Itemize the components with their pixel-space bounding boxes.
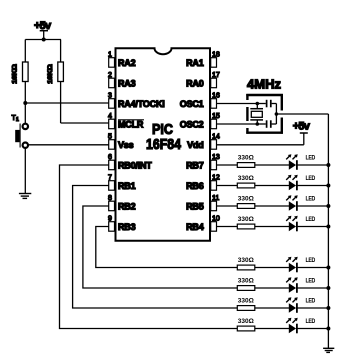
- wire R7 to LED: [255, 267, 289, 269]
- svg-text:330Ω: 330Ω: [238, 195, 254, 202]
- power +5V right: [293, 121, 311, 145]
- svg-text:8: 8: [108, 195, 112, 202]
- svg-text:6: 6: [108, 154, 112, 161]
- wire switch to Vss pin5: [28, 144, 109, 146]
- svg-text:330Ω: 330Ω: [238, 277, 254, 284]
- resistor R6 330ohm: [237, 216, 255, 229]
- svg-text:18: 18: [212, 52, 220, 59]
- wire +5V to Vdd pin14: [217, 144, 304, 146]
- pin stubs left: [109, 58, 115, 232]
- wire RB2 pin8 run: [83, 206, 237, 288]
- wire D6 to bus: [297, 287, 328, 289]
- node A junction dot: [23, 101, 27, 105]
- wire RB5 pin11 row: [217, 205, 238, 207]
- wire D5 to bus: [297, 267, 328, 269]
- wire node A to RA4 pin3: [25, 102, 108, 104]
- node D6 bus junction: [326, 286, 330, 290]
- svg-text:RB7: RB7: [186, 161, 204, 171]
- wire RB1 pin7 run: [73, 186, 238, 309]
- pin stubs right: [211, 58, 217, 232]
- svg-text:RA1: RA1: [186, 58, 204, 68]
- wire node A to switch: [24, 103, 26, 123]
- pin labels left: [118, 58, 165, 232]
- ground right: [323, 348, 334, 352]
- svg-text:RB0/INT: RB0/INT: [118, 161, 152, 171]
- wire D7 to bus: [297, 307, 328, 309]
- svg-text:LED: LED: [306, 258, 316, 264]
- svg-text:10: 10: [212, 216, 220, 223]
- svg-text:RB4: RB4: [186, 222, 204, 232]
- svg-text:LED: LED: [306, 176, 316, 182]
- wire R4 to LED: [255, 185, 289, 187]
- wire RB4 pin10 row: [217, 226, 238, 228]
- resistor R7 330ohm: [237, 257, 255, 270]
- svg-text:11: 11: [212, 195, 219, 202]
- svg-text:LED: LED: [306, 217, 316, 223]
- svg-text:OSC1: OSC1: [180, 99, 204, 109]
- wire RB3 pin9 run: [96, 227, 238, 268]
- LED D6: [286, 277, 316, 293]
- wire RB6 pin12 row: [217, 185, 238, 187]
- svg-text:RB2: RB2: [118, 202, 136, 212]
- LED D5: [286, 257, 316, 273]
- resistor R4 330ohm: [237, 175, 255, 188]
- LED D1: [286, 154, 316, 170]
- svg-text:Vss: Vss: [118, 140, 134, 150]
- svg-text:OSC2: OSC2: [180, 120, 204, 130]
- wire cap common vertical: [275, 104, 277, 125]
- wire R2 to MCLR pin4: [61, 122, 109, 124]
- svg-text:1: 1: [16, 117, 19, 123]
- LED D8: [286, 318, 316, 334]
- svg-text:330Ω: 330Ω: [238, 175, 254, 182]
- node D7 bus junction: [326, 306, 330, 310]
- svg-text:+5v: +5v: [293, 121, 311, 133]
- svg-text:330Ω: 330Ω: [238, 216, 254, 223]
- node D5 bus junction: [326, 266, 330, 270]
- svg-text:10KΩ: 10KΩ: [12, 64, 19, 84]
- svg-text:LED: LED: [306, 279, 316, 285]
- node OSC1 dot: [255, 102, 259, 106]
- wire R8 to LED: [255, 287, 289, 289]
- wire OSC1 to crystal: [217, 103, 258, 105]
- svg-text:MCLR: MCLR: [118, 120, 144, 130]
- svg-text:RB1: RB1: [118, 181, 136, 191]
- pin numbers right: [212, 52, 220, 223]
- wire D4 to bus: [297, 226, 328, 228]
- svg-text:RA0: RA0: [186, 79, 204, 89]
- svg-text:LED: LED: [306, 299, 316, 305]
- svg-text:1: 1: [108, 52, 112, 59]
- wire cap common to ground bus: [276, 113, 328, 115]
- resistor R3 330ohm: [237, 154, 255, 167]
- pin numbers left: [108, 52, 112, 223]
- LED D3: [286, 195, 316, 211]
- svg-text:13: 13: [212, 154, 220, 161]
- svg-text:14: 14: [212, 134, 220, 141]
- resistor R1 10K: [12, 62, 29, 84]
- wire switch to ground: [24, 148, 26, 194]
- svg-text:RA4/TOCKI: RA4/TOCKI: [118, 99, 165, 109]
- wire D8 to bus: [297, 328, 328, 330]
- LED D7: [286, 297, 316, 313]
- ground left: [19, 194, 31, 199]
- wire D1 to bus: [297, 164, 328, 166]
- node D2 bus junction: [326, 184, 330, 188]
- svg-text:10KΩ: 10KΩ: [47, 64, 54, 84]
- svg-text:330Ω: 330Ω: [238, 297, 254, 304]
- node D8 bus junction: [326, 327, 330, 331]
- node D4 bus junction: [326, 225, 330, 229]
- wire RB7 pin13 row: [217, 164, 238, 166]
- wire right rail drop: [60, 40, 62, 63]
- svg-text:RB3: RB3: [118, 222, 136, 232]
- wire R5 to LED: [255, 205, 289, 207]
- svg-text:2: 2: [108, 72, 112, 79]
- svg-text:12: 12: [212, 175, 220, 182]
- wire +5V rail: [25, 39, 61, 41]
- wire R1 to node A: [24, 82, 26, 104]
- switch T1: [12, 115, 28, 148]
- svg-text:15: 15: [212, 113, 220, 120]
- svg-text:LED: LED: [306, 319, 316, 325]
- resistor R10 330ohm: [237, 318, 255, 331]
- node cap common dot: [275, 112, 279, 116]
- crystal X1: [250, 104, 263, 125]
- LED D4: [286, 216, 316, 232]
- capacitor C1: [257, 100, 276, 108]
- LED D2: [286, 175, 316, 191]
- svg-text:3: 3: [108, 93, 112, 100]
- resistor R2 10K: [47, 62, 63, 84]
- node OSC2 dot: [255, 122, 259, 126]
- wire D2 to bus: [297, 185, 328, 187]
- power +5V left: [34, 20, 52, 40]
- node D1 bus junction: [326, 163, 330, 167]
- wire left rail drop: [24, 40, 26, 63]
- resistor R5 330ohm: [237, 195, 255, 208]
- svg-text:330Ω: 330Ω: [238, 318, 254, 325]
- svg-text:9: 9: [108, 216, 112, 223]
- svg-text:16: 16: [212, 93, 220, 100]
- svg-text:16F84: 16F84: [146, 136, 182, 153]
- wire OSC2 to crystal: [217, 123, 258, 125]
- wire R3 to LED: [255, 164, 289, 166]
- svg-text:7: 7: [108, 175, 112, 182]
- node D3 bus junction: [326, 204, 330, 208]
- svg-text:RA3: RA3: [118, 79, 136, 89]
- resistor R9 330ohm: [237, 297, 255, 310]
- wire RB0 pin6 run: [60, 165, 238, 329]
- svg-text:330Ω: 330Ω: [238, 257, 254, 264]
- svg-text:5: 5: [108, 134, 112, 141]
- svg-text:4: 4: [108, 113, 112, 120]
- svg-text:LED: LED: [306, 197, 316, 203]
- wire R6 to LED: [255, 226, 289, 228]
- svg-text:RA2: RA2: [118, 58, 136, 68]
- IC U1 PIC16F84 body: [115, 48, 212, 241]
- svg-text:4MHz: 4MHz: [247, 76, 281, 91]
- crystal block box: [246, 94, 283, 134]
- wire R10 to LED: [255, 328, 289, 330]
- node +5V rail junction: [42, 38, 46, 42]
- svg-text:RB6: RB6: [186, 181, 204, 191]
- svg-text:LED: LED: [306, 156, 316, 162]
- pin labels right: [180, 58, 204, 232]
- ground bus vertical right: [327, 114, 329, 348]
- wire D3 to bus: [297, 205, 328, 207]
- wire R2 down: [60, 82, 62, 124]
- svg-text:Vdd: Vdd: [187, 140, 203, 150]
- svg-text:17: 17: [212, 72, 220, 79]
- svg-text:330Ω: 330Ω: [238, 154, 254, 161]
- capacitor C2: [257, 120, 276, 128]
- svg-text:RB5: RB5: [186, 202, 204, 212]
- wire R9 to LED: [255, 307, 289, 309]
- resistor R8 330ohm: [237, 277, 255, 290]
